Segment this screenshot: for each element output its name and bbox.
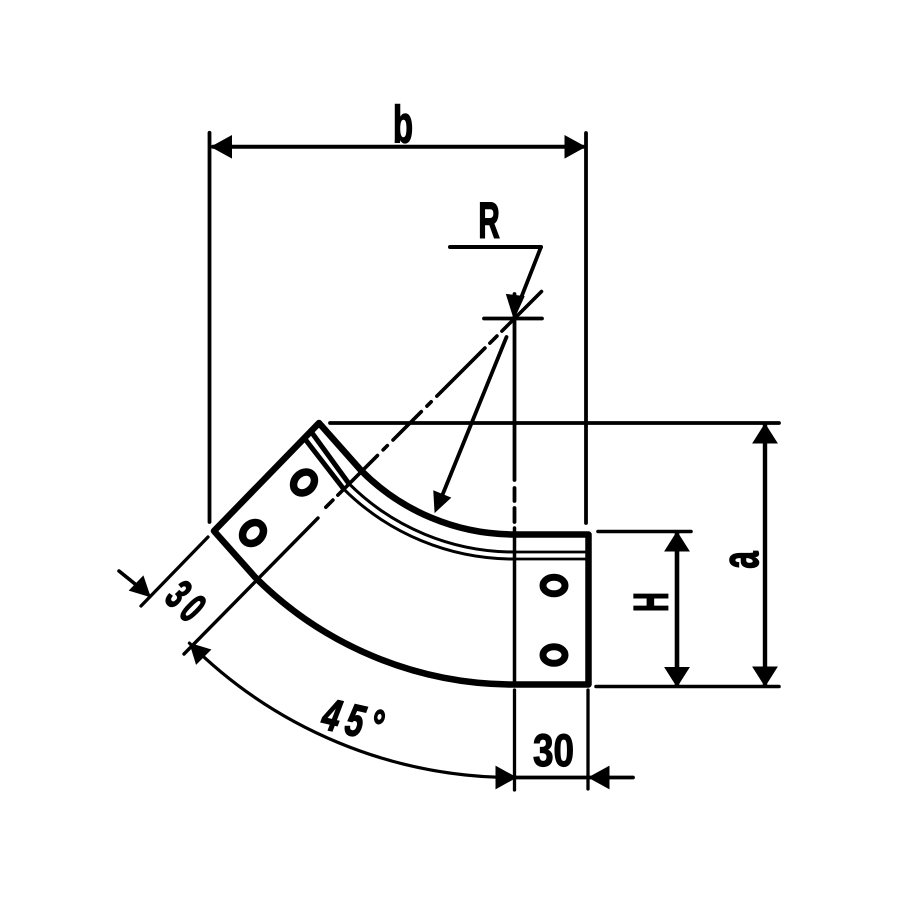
extension line b left <box>208 133 212 522</box>
hole right flange upper <box>543 577 565 594</box>
45 degree arc <box>189 643 514 777</box>
fold line 1 <box>311 432 349 484</box>
bend start line left with extension <box>184 518 318 654</box>
svg-text:R: R <box>478 192 499 249</box>
svg-text:30: 30 <box>533 726 574 776</box>
dimension 30 left arrow and tail <box>119 571 148 595</box>
leader R diagonal to center <box>521 247 541 298</box>
tray body outline <box>214 423 589 685</box>
arm centerline dash-dot <box>322 292 542 512</box>
extension line end face <box>141 537 208 606</box>
center cross <box>484 317 542 321</box>
extension line a top <box>330 421 779 425</box>
bend start line right <box>513 528 517 684</box>
leader R horizontal <box>450 245 541 249</box>
extension line below right flange left <box>513 690 516 790</box>
fold line 2 <box>305 438 344 489</box>
dimension line b <box>213 145 583 149</box>
svg-text:a: a <box>712 550 770 568</box>
hole right flange lower <box>543 647 565 664</box>
extension line H top <box>598 530 691 534</box>
svg-text:H: H <box>626 592 679 611</box>
extension line b right <box>584 133 588 523</box>
hole left flange lower <box>238 518 267 547</box>
svg-text:b: b <box>393 97 413 154</box>
extension line below right flange right <box>586 690 589 789</box>
extension line bottom shared <box>596 685 779 689</box>
radius line to arc <box>442 337 507 496</box>
dimension line 30 right <box>515 776 588 780</box>
center vertical line <box>513 294 517 480</box>
hole left flange upper <box>289 468 318 497</box>
dimension line H <box>675 533 680 685</box>
dimension line a <box>763 425 767 685</box>
